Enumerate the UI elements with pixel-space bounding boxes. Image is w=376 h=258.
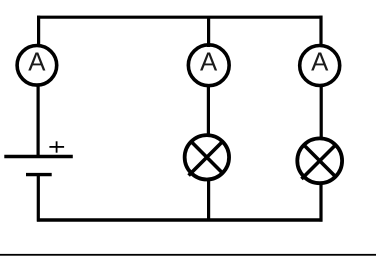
wire: ammeter A2 to lamp L1 — [207, 84, 210, 136]
wire: top rail — [37, 16, 323, 19]
battery B1 polarity + sign — [49, 141, 64, 152]
wire: ammeter A3 to lamp L2 — [320, 84, 323, 140]
svg-text:A: A — [200, 48, 218, 76]
ammeter A2 body — [188, 45, 229, 86]
wire: lamp L2 to bottom rail — [319, 182, 322, 222]
svg-text:A: A — [311, 48, 329, 76]
ammeter A3 body — [300, 46, 340, 86]
battery B1 positive (long) plate — [4, 155, 73, 158]
battery B1 negative (short) plate — [26, 173, 52, 176]
wire: battery negative plate to bottom rail — [37, 175, 40, 222]
lamp L2 — [297, 138, 342, 183]
wire: middle branch top (rail junction to ammeter A2) — [207, 17, 210, 47]
wire: bottom rail — [37, 218, 323, 221]
separator rule at page bottom — [0, 254, 376, 256]
wire: left vertical top (rail to ammeter A1) — [37, 16, 40, 47]
svg-text:A: A — [28, 48, 46, 76]
ammeter A1 body — [17, 46, 57, 86]
wire: right vertical top (rail corner to ammeter A3) — [319, 16, 322, 47]
lamp L1 — [185, 135, 229, 179]
wire: lamp L1 to bottom rail — [207, 178, 210, 220]
wire: ammeter A1 to battery positive plate — [36, 84, 39, 157]
